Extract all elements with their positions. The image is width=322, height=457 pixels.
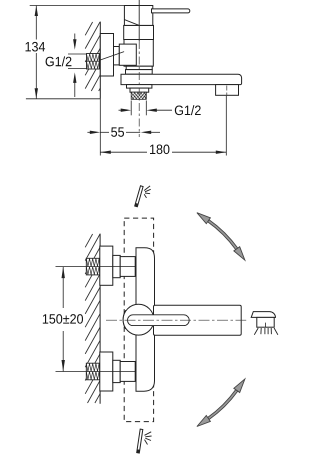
label 55 bbox=[111, 127, 124, 136]
body boss arc bbox=[123, 310, 125, 329]
swivel arrow bottom bbox=[208, 390, 238, 420]
dim 134 extension bottom bbox=[26, 98, 100, 100]
connector pipe (top view) bbox=[114, 47, 120, 65]
outlet dim extension lines bbox=[130, 101, 132, 116]
outlet dim arrows bbox=[119, 109, 128, 111]
handle cap bbox=[124, 6, 152, 26]
dim 134 extension top bbox=[30, 5, 125, 7]
leader line G1/2 bbox=[100, 52, 125, 61]
bottom inlet pipe bbox=[113, 360, 120, 382]
top inlet axis / dim extension bbox=[56, 266, 136, 268]
bottom inlet axis / dim extension bbox=[56, 371, 136, 373]
recessed box (dashed) bbox=[124, 218, 153, 422]
faucet body (front view) bbox=[136, 248, 155, 392]
dim 180 extension right bbox=[225, 96, 227, 156]
label 180 bbox=[150, 145, 169, 155]
top inlet nipple thread bbox=[86, 258, 100, 275]
nipple extension lines bbox=[68, 53, 87, 55]
outlet flange 2 bbox=[130, 88, 149, 92]
label 150±20 bbox=[43, 314, 83, 324]
spout (top view) bbox=[121, 74, 242, 84]
dim 55 bbox=[87, 131, 96, 133]
top inlet nut bbox=[120, 257, 135, 277]
label 134 bbox=[26, 42, 46, 52]
label G1/2 outlet bbox=[175, 105, 201, 115]
handle position icon top (stick) bbox=[135, 186, 143, 207]
handle icon top spray lines bbox=[144, 186, 150, 191]
connection nut (top view) bbox=[119, 44, 136, 65]
wall escutcheon (top view) bbox=[100, 34, 113, 77]
faucet centerline bbox=[138, 0, 140, 41]
wall section hatch (front view) bbox=[85, 234, 100, 403]
wall section hatch (top view) bbox=[85, 22, 100, 91]
hand shower head bbox=[251, 312, 275, 318]
lever slot bbox=[128, 315, 190, 326]
faucet body (top view) bbox=[124, 40, 153, 67]
handle position icon bottom (stick) bbox=[137, 429, 143, 453]
handle lever bbox=[152, 9, 190, 13]
dim 150 line+arrows bbox=[62, 267, 64, 308]
G1/2 outlet thread bbox=[131, 92, 146, 99]
hand shower neck bbox=[257, 317, 274, 327]
aerator centerline bbox=[226, 86, 228, 97]
G1/2 inlet nipple thread (top view) bbox=[87, 54, 100, 70]
wall dim extension line bbox=[99, 99, 101, 156]
hand shower spray lines bbox=[254, 328, 258, 335]
spout end piece / aerator bbox=[216, 85, 239, 96]
handle icon bottom spray lines bbox=[145, 432, 152, 436]
wall face line (front view) bbox=[99, 234, 101, 404]
spout axis centerline bbox=[106, 319, 246, 321]
outlet flange 1 bbox=[127, 85, 152, 89]
dim 134 line+arrows bbox=[35, 6, 37, 40]
swivel arrow top bbox=[208, 220, 238, 250]
bottom inlet nut bbox=[120, 362, 135, 382]
top inlet escutcheon bbox=[100, 246, 113, 285]
ball joint circle bbox=[123, 304, 154, 335]
spout bar (front view) bbox=[154, 305, 242, 335]
top inlet pipe bbox=[113, 255, 120, 277]
cartridge collar bbox=[124, 25, 154, 39]
bottom inlet nipple thread bbox=[86, 363, 100, 380]
label G1/2 inlet bbox=[46, 56, 72, 66]
wall face line (top view) bbox=[99, 22, 101, 99]
bottom inlet escutcheon bbox=[100, 352, 113, 391]
G1/2 inlet dimension arrows bbox=[74, 34, 76, 47]
dim 180 bbox=[100, 151, 147, 153]
